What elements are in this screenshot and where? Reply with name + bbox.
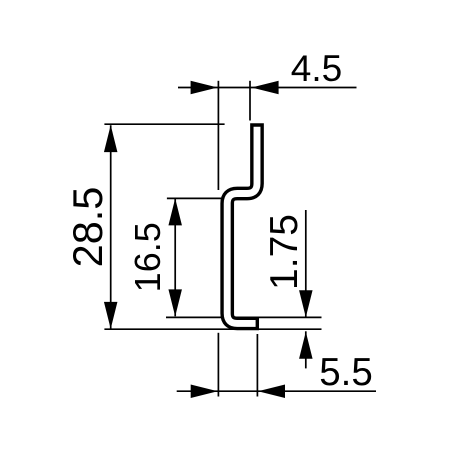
svg-text:28.5: 28.5 — [64, 187, 111, 268]
svg-text:1.75: 1.75 — [263, 214, 306, 290]
svg-text:4.5: 4.5 — [291, 48, 342, 89]
svg-text:16.5: 16.5 — [127, 222, 168, 292]
svg-text:5.5: 5.5 — [319, 351, 373, 394]
